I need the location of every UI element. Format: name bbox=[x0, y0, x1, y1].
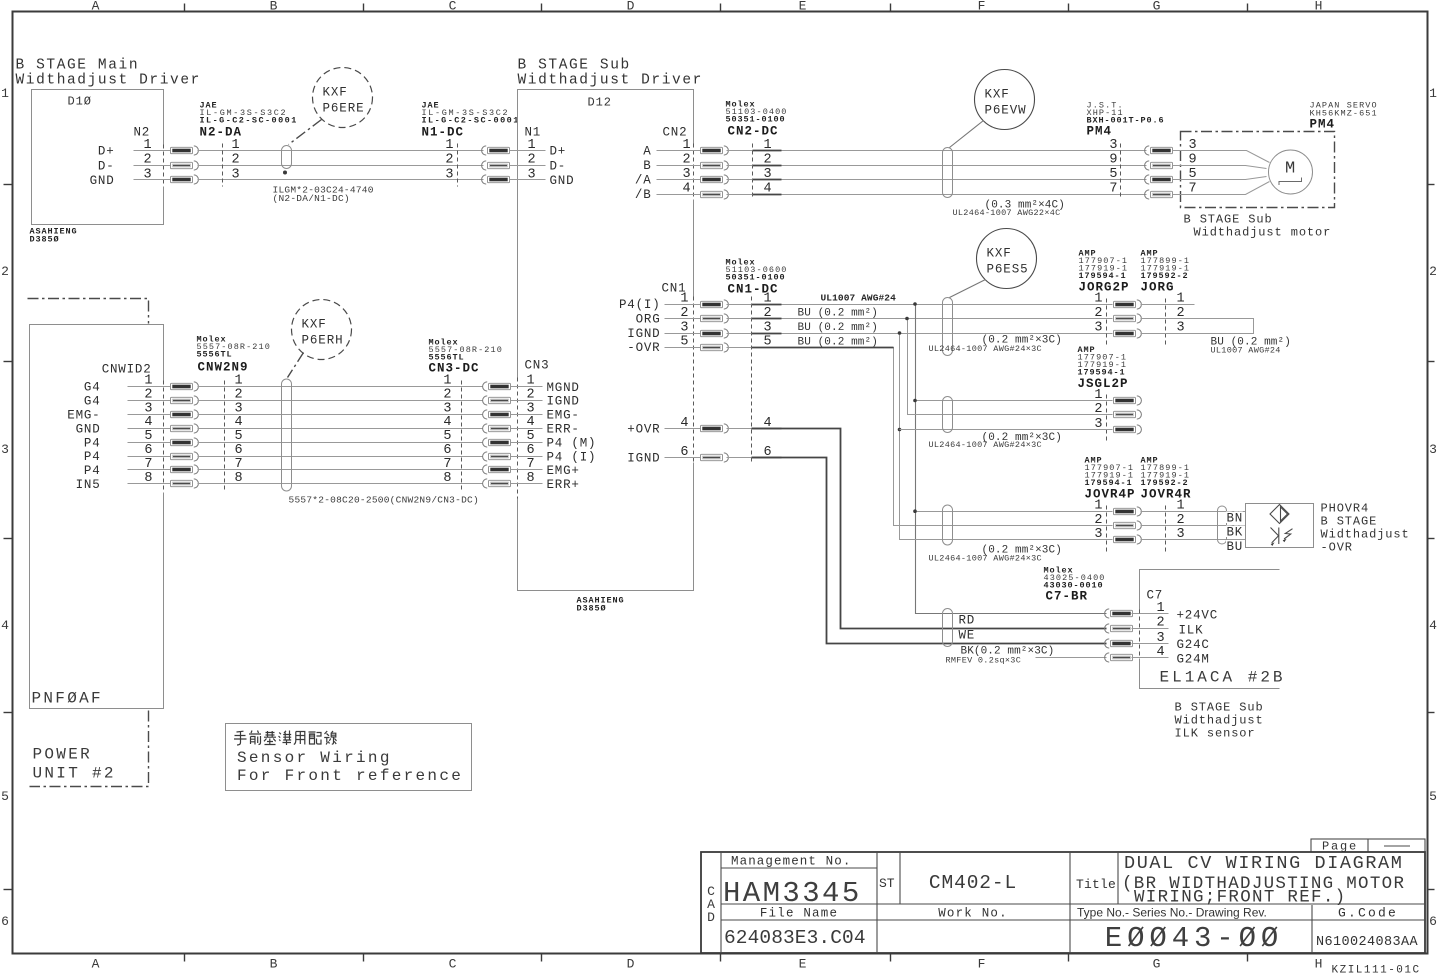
svg-text:7: 7 bbox=[1109, 182, 1117, 197]
svg-text:179594-1: 179594-1 bbox=[1078, 368, 1126, 378]
svg-text:G4: G4 bbox=[84, 381, 101, 395]
connector N2 pins bbox=[90, 138, 171, 188]
dashed boundary CN1-DC bbox=[751, 297, 753, 463]
svg-text:624083E3.C04: 624083E3.C04 bbox=[724, 927, 866, 949]
dashed boundary JOVR4R bbox=[1165, 506, 1167, 554]
connector N1-DC pin numbers bbox=[445, 138, 453, 182]
svg-text:3: 3 bbox=[1094, 321, 1102, 336]
cable oval JSGL bbox=[943, 397, 953, 433]
svg-text:P4: P4 bbox=[84, 436, 101, 450]
svg-text:GND: GND bbox=[550, 174, 575, 188]
dashed boundary JSGL2P bbox=[1106, 395, 1108, 444]
svg-text:PM4: PM4 bbox=[1310, 118, 1336, 132]
svg-text:3: 3 bbox=[1157, 631, 1165, 646]
svg-text:D+: D+ bbox=[98, 145, 115, 159]
svg-text:Widthadjust Driver: Widthadjust Driver bbox=[518, 73, 703, 89]
svg-text:P4(I): P4(I) bbox=[619, 298, 661, 312]
wire +OVR to C7 ILK bbox=[727, 428, 754, 430]
svg-text:1: 1 bbox=[1429, 86, 1437, 101]
jumper wire JORG pins 2-3 bbox=[1141, 319, 1254, 334]
svg-text:3: 3 bbox=[1429, 442, 1437, 457]
svg-text:9: 9 bbox=[1109, 153, 1117, 168]
svg-text:+OVR: +OVR bbox=[627, 423, 660, 437]
wire N2-DA to N1-DC bbox=[198, 151, 484, 180]
connector CN3-DC pin numbers bbox=[443, 374, 451, 486]
svg-text:5: 5 bbox=[1, 789, 9, 804]
motor PM4 pin numbers inside bbox=[1173, 138, 1197, 197]
connector CNW2N9 pin numbers bbox=[235, 374, 243, 486]
svg-text:1: 1 bbox=[232, 138, 240, 153]
unit box PNF0AF bbox=[30, 325, 164, 709]
motor enclosure dash-dot box bbox=[1181, 132, 1335, 208]
svg-text:EMG+: EMG+ bbox=[547, 464, 580, 478]
note box Sensor Wiring For Front reference bbox=[226, 724, 472, 791]
svg-text:1: 1 bbox=[1094, 499, 1102, 514]
svg-text:MGND: MGND bbox=[547, 381, 580, 395]
contacts CN2/CN2-DC bbox=[701, 146, 729, 155]
svg-text:3: 3 bbox=[1109, 138, 1117, 153]
svg-text:ERR-: ERR- bbox=[547, 423, 580, 437]
leader P6ERH bbox=[288, 353, 304, 378]
svg-text:G24M: G24M bbox=[1177, 653, 1210, 667]
connector N2-DA pin numbers bbox=[232, 138, 240, 182]
svg-text:B STAGE Sub: B STAGE Sub bbox=[1175, 701, 1264, 715]
svg-text:ILK sensor: ILK sensor bbox=[1175, 727, 1256, 741]
svg-text:N2-DA: N2-DA bbox=[200, 126, 243, 140]
svg-text:ST: ST bbox=[879, 876, 895, 891]
svg-text:-OVR: -OVR bbox=[627, 341, 660, 355]
svg-text:G: G bbox=[1153, 0, 1161, 14]
connector JSGL2P pin numbers bbox=[1094, 388, 1102, 432]
wires CNW2N9 to CN3-DC bbox=[198, 387, 483, 484]
wire JORG pin1 stub bbox=[1141, 304, 1195, 306]
svg-text:3: 3 bbox=[527, 167, 535, 182]
svg-text:4: 4 bbox=[527, 415, 535, 430]
balloon KXF P6ERE bbox=[313, 68, 373, 128]
svg-text:EMG-: EMG- bbox=[547, 409, 580, 423]
svg-text:D: D bbox=[627, 957, 635, 972]
svg-text:P6ES5: P6ES5 bbox=[987, 263, 1029, 277]
svg-text:A: A bbox=[643, 145, 651, 159]
wire JSGL2P pin1 bbox=[916, 400, 1113, 402]
connector CN1 pins bbox=[619, 292, 701, 466]
svg-text:P4: P4 bbox=[84, 450, 101, 464]
leader P6EVW bbox=[950, 121, 984, 148]
svg-text:Widthadjust: Widthadjust bbox=[1321, 528, 1410, 542]
svg-text:IN5: IN5 bbox=[76, 478, 101, 492]
svg-text:CNW2N9: CNW2N9 bbox=[198, 361, 249, 375]
dashed boundary N1-DC bbox=[457, 144, 459, 187]
power unit boundary dash-dot top bbox=[28, 299, 149, 324]
svg-text:6: 6 bbox=[235, 443, 243, 458]
cable oval P6EVW bbox=[943, 148, 953, 198]
dashed boundary CN3-DC bbox=[461, 381, 463, 491]
wires CN1-DC to JORG2P bbox=[727, 305, 1113, 458]
cable oval P6ERH bbox=[282, 379, 292, 491]
connector CN3 pins bbox=[511, 374, 597, 493]
svg-text:5: 5 bbox=[1109, 167, 1117, 182]
svg-text:P6ERH: P6ERH bbox=[302, 334, 344, 348]
svg-text:G.Code: G.Code bbox=[1338, 906, 1398, 921]
svg-text:Widthadjust: Widthadjust bbox=[1175, 714, 1264, 728]
svg-text:B: B bbox=[643, 159, 651, 173]
svg-text:B STAGE Sub: B STAGE Sub bbox=[1184, 213, 1273, 227]
connector JORG pin numbers bbox=[1177, 292, 1185, 336]
contacts N1-DC/N1 bbox=[482, 146, 510, 155]
cable oval JOVR bbox=[943, 505, 953, 545]
photo sensor diamond symbol bbox=[1270, 505, 1289, 524]
svg-text:2: 2 bbox=[1, 264, 9, 279]
svg-text:Widthadjust motor: Widthadjust motor bbox=[1194, 226, 1332, 240]
svg-text:/B: /B bbox=[635, 188, 652, 202]
svg-text:D385Ø: D385Ø bbox=[30, 235, 60, 245]
svg-text:D12: D12 bbox=[588, 96, 612, 110]
wire -OVR to JOVR4P pin2 bbox=[727, 348, 1113, 526]
label J.S.T. PM4 bbox=[1087, 101, 1165, 139]
svg-text:ILK: ILK bbox=[1179, 624, 1204, 638]
svg-text:IL-G-C2-SC-0001: IL-G-C2-SC-0001 bbox=[200, 116, 298, 126]
svg-text:+24VC: +24VC bbox=[1177, 609, 1219, 623]
wire IGND to C7 G24C bbox=[727, 457, 754, 459]
svg-text:N610024083AA: N610024083AA bbox=[1316, 935, 1419, 950]
svg-text:F: F bbox=[978, 957, 986, 972]
label Molex CN2-DC bbox=[726, 100, 788, 139]
svg-text:WIRING;FRONT REF.): WIRING;FRONT REF.) bbox=[1134, 888, 1346, 908]
svg-text:1: 1 bbox=[1094, 292, 1102, 307]
label JAE N2-DA bbox=[200, 101, 298, 140]
svg-text:RD: RD bbox=[959, 614, 976, 628]
wire C7 pin4 stub bbox=[1036, 657, 1107, 659]
svg-text:179594-1: 179594-1 bbox=[1085, 478, 1133, 488]
svg-text:8: 8 bbox=[443, 471, 451, 486]
balloon KXF P6ES5 bbox=[977, 229, 1037, 289]
svg-text:ERR+: ERR+ bbox=[547, 478, 580, 492]
svg-text:KXF: KXF bbox=[302, 318, 327, 332]
svg-text:2: 2 bbox=[1429, 264, 1437, 279]
svg-text:Type No.- Series No.- Drawing: Type No.- Series No.- Drawing Rev. bbox=[1077, 906, 1267, 920]
svg-text:Sensor Wiring: Sensor Wiring bbox=[237, 749, 392, 767]
label JAPAN SERVO PM4 bbox=[1310, 101, 1378, 132]
signal names C7 bbox=[1177, 609, 1219, 667]
svg-text:G24C: G24C bbox=[1177, 638, 1210, 652]
driver box D12 bbox=[518, 90, 694, 591]
svg-text:ORG: ORG bbox=[636, 313, 661, 327]
connector N1 pins bbox=[510, 138, 575, 188]
contacts N2/N2-DA bbox=[171, 146, 199, 155]
connector JOVR4R pin numbers bbox=[1177, 499, 1185, 542]
svg-text:JORG: JORG bbox=[1141, 281, 1175, 295]
title block bbox=[701, 839, 1425, 953]
svg-text:BU: BU bbox=[1227, 540, 1244, 554]
svg-text:POWER: POWER bbox=[33, 746, 93, 764]
svg-text:EØØ43-ØØ: EØØ43-ØØ bbox=[1105, 922, 1283, 955]
svg-text:Management No.: Management No. bbox=[731, 855, 851, 869]
svg-text:KZIL111-01C: KZIL111-01C bbox=[1332, 965, 1421, 974]
label AMP JORG bbox=[1141, 249, 1191, 295]
contacts PM4 motor bbox=[1145, 146, 1173, 155]
contacts JOVR4P/JOVR4R bbox=[1114, 507, 1142, 516]
svg-text:UL2464-1007 AWG22×4C: UL2464-1007 AWG22×4C bbox=[953, 208, 1061, 218]
wire color labels BN BK BU bbox=[1227, 512, 1244, 555]
svg-text:DUAL CV WIRING DIAGRAM: DUAL CV WIRING DIAGRAM bbox=[1124, 853, 1403, 874]
svg-text:4: 4 bbox=[1429, 618, 1437, 633]
wires CN2-DC to PM4 bbox=[727, 151, 1147, 195]
driver box D10 bbox=[32, 90, 164, 225]
svg-text:UL2464-1007 AWG#24×3C: UL2464-1007 AWG#24×3C bbox=[929, 344, 1042, 354]
label AMP JOVR4P bbox=[1085, 456, 1136, 502]
label AMP JORG2P bbox=[1079, 249, 1130, 295]
svg-text:UL2464-1007 AWG#24×3C: UL2464-1007 AWG#24×3C bbox=[929, 440, 1042, 450]
svg-text:5: 5 bbox=[1429, 789, 1437, 804]
svg-text:P4 (M): P4 (M) bbox=[547, 436, 597, 450]
dashed boundary JORG2P bbox=[1106, 299, 1108, 348]
svg-text:C: C bbox=[449, 0, 457, 14]
svg-text:IGND: IGND bbox=[627, 452, 660, 466]
svg-text:5: 5 bbox=[527, 429, 535, 444]
net IGND vertical to JOVR4P pin3 bbox=[900, 334, 1113, 540]
svg-text:50351-0100: 50351-0100 bbox=[726, 273, 786, 283]
svg-text:PHOVR4: PHOVR4 bbox=[1321, 502, 1370, 516]
svg-text:3: 3 bbox=[443, 401, 451, 416]
svg-text:3: 3 bbox=[445, 167, 453, 182]
svg-text:5556TL: 5556TL bbox=[197, 350, 233, 360]
svg-text:CN3: CN3 bbox=[525, 359, 550, 373]
svg-text:1: 1 bbox=[1157, 601, 1165, 616]
svg-text:GND: GND bbox=[76, 422, 101, 436]
motor lead wires bbox=[1181, 151, 1270, 195]
label Molex CNW2N9 bbox=[197, 335, 271, 375]
contacts CNWID2/CNW2N9 bbox=[171, 382, 199, 391]
svg-text:P4: P4 bbox=[84, 464, 101, 478]
svg-text:KXF: KXF bbox=[985, 88, 1010, 102]
balloon KXF P6ERH bbox=[292, 300, 352, 360]
contacts JORG2P/JORG bbox=[1114, 300, 1142, 309]
svg-text:KXF: KXF bbox=[987, 247, 1012, 261]
contacts C7-BR/C7 bbox=[1105, 609, 1133, 618]
svg-text:F: F bbox=[978, 0, 986, 14]
svg-text:B STAGE: B STAGE bbox=[1321, 515, 1378, 529]
svg-text:3: 3 bbox=[1094, 527, 1102, 542]
svg-text:G4: G4 bbox=[84, 395, 101, 409]
connector CN2 pins bbox=[635, 138, 701, 202]
svg-text:BN: BN bbox=[1227, 512, 1244, 526]
svg-text:WE: WE bbox=[959, 629, 976, 643]
svg-text:RMFEV 0.2sq×3C: RMFEV 0.2sq×3C bbox=[946, 656, 1022, 666]
power unit boundary dash-dot bottom bbox=[30, 711, 149, 787]
contacts CN3-DC/CN3 bbox=[483, 382, 511, 391]
svg-text:2: 2 bbox=[1094, 513, 1102, 528]
svg-text:P6EVW: P6EVW bbox=[985, 104, 1027, 118]
svg-text:6: 6 bbox=[1429, 914, 1437, 929]
svg-text:CN3-DC: CN3-DC bbox=[429, 362, 480, 376]
svg-text:C: C bbox=[449, 957, 457, 972]
svg-text:UL1007 AWG#24: UL1007 AWG#24 bbox=[821, 293, 897, 304]
svg-text:P4 (I): P4 (I) bbox=[547, 450, 597, 464]
svg-text:7: 7 bbox=[443, 457, 451, 472]
label JAE N1-DC bbox=[422, 101, 520, 140]
svg-text:PM4: PM4 bbox=[1087, 125, 1113, 139]
leader P6ES5 bbox=[950, 280, 986, 298]
junction dot on GND wire bbox=[283, 171, 287, 175]
svg-text:D-: D- bbox=[98, 160, 115, 174]
svg-text:179592-2: 179592-2 bbox=[1141, 478, 1189, 488]
svg-text:1: 1 bbox=[443, 374, 451, 389]
svg-text:B STAGE Sub: B STAGE Sub bbox=[518, 58, 631, 74]
svg-text:JORG2P: JORG2P bbox=[1079, 281, 1130, 295]
svg-text:B: B bbox=[270, 957, 278, 972]
svg-text:2: 2 bbox=[445, 153, 453, 168]
svg-text:IL-G-C2-SC-0001: IL-G-C2-SC-0001 bbox=[422, 116, 520, 126]
svg-text:3: 3 bbox=[143, 167, 151, 182]
svg-text:A: A bbox=[92, 0, 100, 14]
motor M1 circle bbox=[1269, 150, 1313, 194]
svg-text:B: B bbox=[270, 0, 278, 14]
svg-text:D: D bbox=[707, 910, 715, 925]
svg-text:BK: BK bbox=[1227, 526, 1244, 540]
cable oval P6ES5 bbox=[943, 298, 953, 356]
svg-text:6: 6 bbox=[144, 443, 152, 458]
svg-text:B STAGE Main: B STAGE Main bbox=[16, 58, 140, 74]
dashed boundary N2-DA bbox=[222, 144, 224, 187]
svg-text:4: 4 bbox=[235, 415, 243, 430]
sensor box EL1ACA bbox=[1140, 570, 1280, 689]
connector CNWID2 pins bbox=[67, 374, 170, 493]
connector CN1-DC pin numbers bbox=[764, 292, 772, 461]
svg-text:2: 2 bbox=[1157, 616, 1165, 631]
svg-text:D385Ø: D385Ø bbox=[577, 604, 607, 614]
dashed boundary JORG bbox=[1165, 299, 1167, 348]
svg-text:Work No.: Work No. bbox=[938, 907, 1008, 921]
svg-text:N1-DC: N1-DC bbox=[422, 126, 465, 140]
svg-text:179592-2: 179592-2 bbox=[1141, 271, 1189, 281]
svg-text:D: D bbox=[627, 0, 635, 14]
contacts JSGL2P bbox=[1114, 396, 1142, 405]
svg-text:5557*2-08C20-2500(CNW2N9/CN3-D: 5557*2-08C20-2500(CNW2N9/CN3-DC) bbox=[289, 495, 479, 506]
svg-text:2: 2 bbox=[1094, 402, 1102, 417]
wire JSGL2P pin3 junction bbox=[898, 428, 902, 432]
svg-text:UNIT #2: UNIT #2 bbox=[33, 765, 116, 783]
svg-text:JSGL2P: JSGL2P bbox=[1078, 377, 1129, 391]
svg-text:HAM3345: HAM3345 bbox=[723, 877, 862, 910]
svg-text:CN1-DC: CN1-DC bbox=[728, 283, 779, 297]
wires JOVR4R to PHOVR4 bbox=[1141, 512, 1246, 540]
svg-text:/A: /A bbox=[635, 174, 652, 188]
svg-text:2: 2 bbox=[443, 387, 451, 402]
svg-text:H: H bbox=[1315, 957, 1323, 972]
label B STAGE Sub Widthadjust ILK sensor bbox=[1175, 701, 1264, 741]
dashed boundary PM4 bbox=[1120, 144, 1122, 198]
svg-text:1: 1 bbox=[445, 138, 453, 153]
svg-text:50351-0100: 50351-0100 bbox=[726, 115, 786, 125]
svg-text:179594-1: 179594-1 bbox=[1079, 271, 1127, 281]
balloon KXF P6EVW bbox=[975, 70, 1035, 130]
contacts CN1/CN1-DC bbox=[701, 300, 729, 309]
svg-text:E: E bbox=[799, 0, 807, 14]
svg-text:A: A bbox=[92, 957, 100, 972]
svg-text:P6ERE: P6ERE bbox=[323, 102, 365, 116]
wire labels UL1007 BU bbox=[798, 293, 897, 349]
svg-text:D1Ø: D1Ø bbox=[68, 95, 92, 109]
svg-text:2: 2 bbox=[1094, 306, 1102, 321]
svg-text:D+: D+ bbox=[550, 145, 567, 159]
title block texts bbox=[707, 840, 1418, 956]
svg-text:GND: GND bbox=[90, 174, 115, 188]
svg-text:EMG-: EMG- bbox=[67, 409, 100, 423]
svg-text:E: E bbox=[799, 957, 807, 972]
label AMP JSGL2P bbox=[1078, 345, 1129, 391]
svg-text:EL1ACA #2B: EL1ACA #2B bbox=[1160, 669, 1286, 687]
svg-text:JOVR4P: JOVR4P bbox=[1085, 488, 1136, 502]
svg-text:Page: Page bbox=[1322, 840, 1358, 854]
svg-text:5: 5 bbox=[443, 429, 451, 444]
dashed boundary JOVR4P bbox=[1106, 506, 1108, 554]
svg-text:G: G bbox=[1153, 957, 1161, 972]
cable oval PHOVR4 bbox=[1218, 506, 1227, 544]
connector CN2-DC pin numbers bbox=[764, 138, 772, 197]
svg-text:4: 4 bbox=[1, 618, 9, 633]
label PHOVR4 B STAGE Widthadjust -OVR bbox=[1321, 502, 1410, 555]
svg-text:3: 3 bbox=[232, 167, 240, 182]
svg-text:4: 4 bbox=[144, 415, 152, 430]
photo sensor PHOVR4 box bbox=[1246, 504, 1314, 548]
label Molex CN3-DC bbox=[429, 338, 503, 376]
svg-text:C7-BR: C7-BR bbox=[1046, 590, 1089, 604]
svg-text:1: 1 bbox=[1, 86, 9, 101]
svg-text:5: 5 bbox=[144, 429, 152, 444]
cable oval P6ERE bbox=[282, 146, 292, 169]
svg-text:2: 2 bbox=[232, 153, 240, 168]
label AMP JOVR4R bbox=[1141, 456, 1192, 502]
net ORG vertical to JSGL2P bbox=[908, 319, 1113, 415]
svg-text:Widthadjust Driver: Widthadjust Driver bbox=[16, 73, 201, 89]
svg-text:6: 6 bbox=[1, 914, 9, 929]
svg-text:D-: D- bbox=[550, 160, 567, 174]
connector C7 pin numbers bbox=[1157, 601, 1165, 660]
svg-text:-OVR: -OVR bbox=[1321, 541, 1353, 555]
svg-text:CN2-DC: CN2-DC bbox=[728, 125, 779, 139]
svg-text:File Name: File Name bbox=[760, 907, 838, 921]
svg-text:H: H bbox=[1315, 0, 1323, 14]
svg-text:For Front reference: For Front reference bbox=[237, 767, 463, 785]
photo transistor symbol bbox=[1271, 528, 1293, 547]
svg-text:IGND: IGND bbox=[547, 395, 580, 409]
connector JOVR4P pin numbers bbox=[1094, 499, 1102, 542]
svg-text:4: 4 bbox=[1157, 645, 1165, 660]
svg-text:BU (0.2 mm²): BU (0.2 mm²) bbox=[798, 308, 878, 320]
connector JORG2P pin numbers bbox=[1094, 292, 1102, 336]
svg-text:6: 6 bbox=[443, 443, 451, 458]
svg-text:BU (0.2 mm²): BU (0.2 mm²) bbox=[798, 322, 878, 334]
cable oval C7 bbox=[943, 609, 953, 647]
net P4(I) power vertical bbox=[916, 305, 1107, 614]
label Molex C7-BR bbox=[1044, 566, 1106, 604]
svg-text:IGND: IGND bbox=[627, 327, 660, 341]
svg-text:UL2464-1007 AWG#24×3C: UL2464-1007 AWG#24×3C bbox=[929, 554, 1042, 564]
svg-text:6: 6 bbox=[527, 443, 535, 458]
wires C7 contacts to labels bbox=[1132, 614, 1169, 658]
svg-text:KXF: KXF bbox=[323, 86, 348, 100]
svg-text:(N2-DA/N1-DC): (N2-DA/N1-DC) bbox=[273, 193, 350, 204]
svg-text:5: 5 bbox=[235, 429, 243, 444]
dashed boundary CNW2N9 bbox=[224, 381, 226, 491]
svg-text:CM402-L: CM402-L bbox=[929, 872, 1017, 894]
svg-text:3: 3 bbox=[1, 442, 9, 457]
wire color labels RD WE BK bbox=[946, 614, 1055, 666]
label Molex CN1-DC bbox=[726, 258, 788, 297]
svg-text:4: 4 bbox=[443, 415, 451, 430]
wire JOVR4P pin1 bbox=[916, 511, 1113, 513]
connector PM4 pin numbers bbox=[1109, 138, 1117, 197]
